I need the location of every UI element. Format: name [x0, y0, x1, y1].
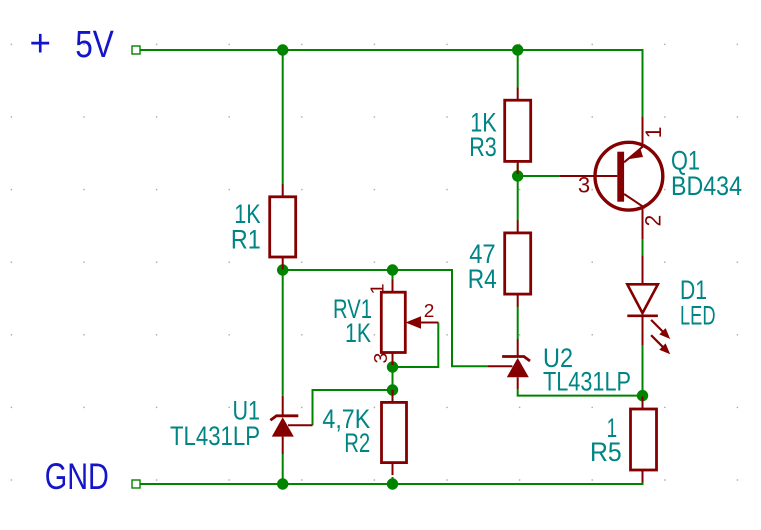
svg-text:BD434: BD434: [671, 171, 742, 201]
svg-text:LED: LED: [680, 301, 716, 331]
svg-text:3: 3: [371, 353, 391, 364]
svg-text:GND: GND: [45, 456, 109, 497]
svg-text:5V: 5V: [75, 24, 114, 66]
svg-text:R5: R5: [590, 437, 622, 467]
svg-text:R3: R3: [469, 132, 497, 162]
svg-text:TL431LP: TL431LP: [170, 421, 260, 451]
svg-text:3: 3: [578, 172, 590, 197]
svg-text:1: 1: [641, 127, 666, 139]
svg-text:2: 2: [424, 301, 435, 321]
svg-text:TL431LP: TL431LP: [543, 367, 631, 397]
svg-text:+: +: [30, 23, 52, 65]
svg-text:2: 2: [641, 215, 666, 227]
svg-text:1K: 1K: [345, 318, 371, 348]
svg-text:R1: R1: [231, 224, 261, 254]
svg-text:R2: R2: [344, 428, 370, 458]
svg-text:R4: R4: [468, 264, 497, 294]
svg-text:1: 1: [368, 283, 388, 294]
